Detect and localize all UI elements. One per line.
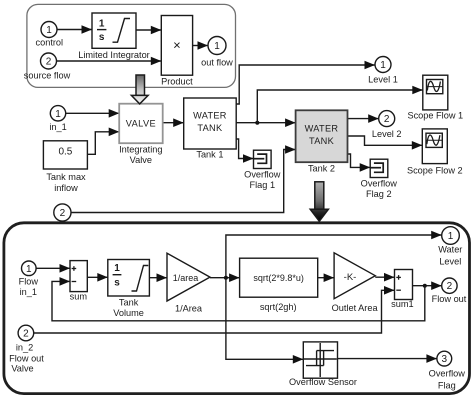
svg-text:1: 1: [114, 263, 120, 274]
svg-text:Integrating: Integrating: [119, 144, 162, 154]
svg-text:Flag 1: Flag 1: [250, 180, 276, 190]
svg-text:1: 1: [26, 264, 32, 275]
svg-text:Overflow: Overflow: [429, 369, 466, 379]
svg-text:s: s: [99, 32, 105, 43]
svg-text:Valve: Valve: [130, 155, 152, 165]
svg-text:out flow: out flow: [201, 57, 233, 67]
svg-text:Overflow Sensor: Overflow Sensor: [289, 377, 357, 387]
svg-text:control: control: [36, 38, 64, 48]
svg-text:WATER: WATER: [193, 111, 227, 121]
svg-text:sum: sum: [70, 292, 88, 302]
svg-text:sum1: sum1: [391, 299, 413, 309]
svg-text:Level 2: Level 2: [372, 129, 402, 139]
svg-text:Flow: Flow: [19, 277, 39, 287]
svg-text:1: 1: [55, 109, 61, 120]
svg-text:s: s: [114, 278, 120, 289]
svg-text:Scope Flow 1: Scope Flow 1: [407, 110, 463, 120]
svg-text:in_2: in_2: [16, 342, 33, 352]
svg-text:Flag 2: Flag 2: [366, 189, 392, 199]
svg-text:×: ×: [173, 38, 181, 53]
svg-text:source flow: source flow: [24, 70, 71, 80]
svg-text:Limited Integrator: Limited Integrator: [78, 50, 150, 60]
svg-text:1/Area: 1/Area: [175, 303, 203, 313]
svg-text:Outlet Area: Outlet Area: [332, 303, 379, 313]
svg-text:VALVE: VALVE: [126, 118, 156, 128]
svg-text:Flow out: Flow out: [432, 294, 467, 304]
svg-text:Flow out: Flow out: [9, 353, 44, 363]
svg-text:2: 2: [60, 208, 66, 219]
svg-text:1/area: 1/area: [173, 273, 199, 283]
svg-text:2: 2: [23, 329, 29, 340]
svg-text:1: 1: [214, 41, 220, 52]
svg-text:Tank: Tank: [119, 298, 139, 308]
svg-text:inflow: inflow: [54, 183, 78, 193]
svg-text:Level 1: Level 1: [368, 74, 398, 84]
svg-text:1: 1: [448, 231, 454, 242]
svg-text:0.5: 0.5: [58, 147, 72, 158]
svg-text:2: 2: [46, 57, 52, 68]
svg-text:Product: Product: [161, 77, 193, 87]
svg-text:Tank max: Tank max: [46, 172, 86, 182]
svg-text:Volume: Volume: [113, 308, 144, 318]
svg-text:in_1: in_1: [49, 122, 66, 132]
svg-text:in_1: in_1: [20, 287, 37, 297]
svg-text:WATER: WATER: [305, 124, 339, 134]
svg-text:1: 1: [380, 60, 386, 71]
svg-text:Water: Water: [438, 244, 462, 254]
svg-text:sqrt(2gh): sqrt(2gh): [260, 302, 297, 312]
svg-text:2: 2: [384, 114, 390, 125]
svg-text:Scope Flow 2: Scope Flow 2: [407, 165, 463, 175]
svg-text:1: 1: [46, 25, 52, 36]
svg-text:Tank 1: Tank 1: [196, 149, 223, 159]
svg-text:Flag: Flag: [438, 381, 456, 391]
svg-text:Tank 2: Tank 2: [308, 164, 335, 174]
svg-text:2: 2: [447, 281, 453, 292]
svg-text:3: 3: [442, 354, 448, 365]
svg-text:Valve: Valve: [11, 363, 33, 373]
svg-text:1: 1: [99, 19, 105, 30]
svg-text:-K-: -K-: [344, 272, 357, 283]
svg-text:sqrt(2*9.8*u): sqrt(2*9.8*u): [253, 273, 304, 283]
svg-text:TANK: TANK: [197, 123, 223, 133]
svg-text:Overflow: Overflow: [244, 170, 281, 180]
svg-text:Overflow: Overflow: [361, 178, 398, 188]
svg-text:Level: Level: [439, 256, 461, 266]
svg-text:TANK: TANK: [309, 136, 335, 146]
